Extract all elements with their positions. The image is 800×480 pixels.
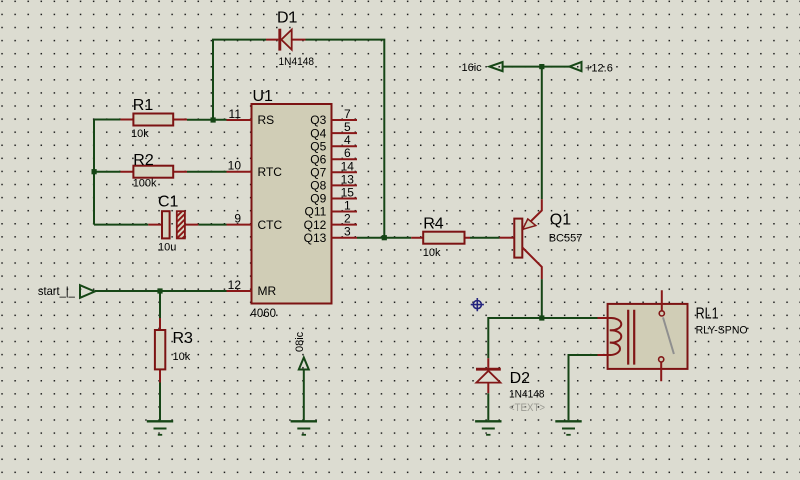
svg-text:RLY-SPNO: RLY-SPNO <box>696 325 748 337</box>
svg-text:1N4148: 1N4148 <box>279 56 315 68</box>
wire: 08ic arrow to ground <box>303 370 305 421</box>
ground below 08ic <box>291 421 317 435</box>
svg-text:10: 10 <box>228 159 242 173</box>
svg-text:4: 4 <box>344 133 351 147</box>
svg-text:12: 12 <box>228 278 242 292</box>
svg-text:Q4: Q4 <box>310 126 326 140</box>
svg-text:10k: 10k <box>173 351 191 363</box>
svg-text:10u: 10u <box>158 242 176 254</box>
U1 pin 3 Q13 <box>304 225 357 245</box>
node: junction Q13/D1 <box>382 235 387 240</box>
svg-text:14: 14 <box>341 159 355 173</box>
svg-text:RS: RS <box>258 113 275 127</box>
U1 pin 13 Q8 <box>310 172 357 192</box>
power terminal +12.6 <box>570 62 613 75</box>
wire: R4 to Q1 base <box>470 237 500 239</box>
marker: origin crosshair <box>471 298 484 311</box>
wire: Q13 to R4 <box>357 237 411 239</box>
U1 pin 12 MR <box>227 278 277 298</box>
node: junction power rail <box>539 64 544 69</box>
node: junction collector/D2/relay <box>539 315 544 320</box>
svg-text:Q1: Q1 <box>550 211 571 228</box>
svg-text:100k: 100k <box>133 178 157 190</box>
U1 pin 11 RS <box>227 107 275 127</box>
svg-text:Q13: Q13 <box>304 231 327 245</box>
svg-text:10k: 10k <box>423 247 441 259</box>
svg-text:2: 2 <box>344 212 351 226</box>
wire: C1 row to U1 pin 9 <box>94 224 227 226</box>
svg-text:R1: R1 <box>133 97 154 114</box>
wire: R2 row to U1 pin 10 <box>94 171 227 173</box>
ground below relay <box>555 421 581 435</box>
svg-text:U1: U1 <box>253 88 274 105</box>
svg-text:7: 7 <box>344 107 351 121</box>
wire: relay coil bottom to ground <box>569 355 598 420</box>
svg-text:3: 3 <box>344 225 351 239</box>
svg-text:Q9: Q9 <box>310 192 326 206</box>
relay RL1 <box>598 290 749 381</box>
input terminal start <box>38 284 95 298</box>
node: junction start/R3 <box>157 288 162 293</box>
wire: left vertical bus R1/R2/C1 <box>93 120 95 225</box>
svg-text:Q11: Q11 <box>305 205 327 219</box>
wire: D2 down to ground <box>487 393 489 420</box>
svg-text:16ic: 16ic <box>462 62 483 74</box>
svg-text:11: 11 <box>229 107 242 121</box>
wire: power rail down to Q1 emitter <box>541 67 543 200</box>
wire: D1 right down to Q13 row <box>306 40 385 238</box>
wire: Q1 collector down <box>541 279 543 318</box>
svg-text:08ic: 08ic <box>294 331 306 352</box>
resistor R4 <box>411 216 470 260</box>
svg-text:C1: C1 <box>158 194 179 211</box>
U1 pin 1 Q11 <box>305 199 357 219</box>
svg-text:+12.6: +12.6 <box>585 63 613 75</box>
svg-text:Q6: Q6 <box>310 152 326 166</box>
svg-text:Q5: Q5 <box>310 139 326 153</box>
transistor Q1 BC557 <box>500 199 583 279</box>
wire: vertical up to D1 <box>213 40 266 120</box>
svg-text:MR: MR <box>258 284 277 298</box>
diode D1 <box>266 10 314 69</box>
svg-text:10k: 10k <box>131 128 149 140</box>
svg-text:BC557: BC557 <box>549 233 583 245</box>
power terminal 08ic with arrow <box>294 331 309 369</box>
wire: R1 row to U1 pin 11 <box>94 119 227 121</box>
svg-text:CTC: CTC <box>258 218 283 232</box>
svg-text:6: 6 <box>344 146 351 160</box>
ground below R3 <box>147 421 173 435</box>
svg-text:13: 13 <box>341 172 355 186</box>
wire: power rail <box>503 66 570 68</box>
wire: R3 down to ground <box>159 383 161 421</box>
svg-text:4060: 4060 <box>251 306 277 320</box>
node: junction RS/D1 branch <box>211 117 216 122</box>
svg-text:<TEXT>: <TEXT> <box>509 402 545 414</box>
svg-text:1N4148: 1N4148 <box>509 389 545 401</box>
diode D2 <box>476 358 545 414</box>
svg-text:9: 9 <box>234 212 241 226</box>
svg-text:D2: D2 <box>510 370 531 387</box>
wire: D2 to relay coil row <box>488 318 597 358</box>
U1 pin 7 Q3 <box>310 107 357 127</box>
U1 pin 6 Q6 <box>310 146 357 166</box>
svg-text:15: 15 <box>341 186 355 200</box>
wire: start to MR <box>95 290 227 292</box>
svg-text:Q8: Q8 <box>310 179 326 193</box>
svg-text:R4: R4 <box>423 216 444 233</box>
svg-text:Q3: Q3 <box>310 113 326 127</box>
U1 pin 9 CTC <box>227 212 283 232</box>
svg-text:R2: R2 <box>133 152 154 169</box>
svg-text:D1: D1 <box>277 10 298 27</box>
ground below D2 <box>475 421 501 435</box>
svg-text:Q12: Q12 <box>304 218 327 232</box>
resistor R3 <box>155 291 193 383</box>
svg-text:RL1: RL1 <box>696 306 719 323</box>
node: junction at R2 left <box>92 169 97 174</box>
U1 pin 4 Q5 <box>310 133 357 153</box>
capacitor C1 <box>148 194 198 254</box>
svg-text:1: 1 <box>344 199 351 213</box>
IC U1 4060 <box>251 88 332 320</box>
resistor R1 <box>120 97 187 140</box>
svg-text:RTC: RTC <box>258 165 283 179</box>
svg-text:R3: R3 <box>173 330 194 347</box>
U1 pin 10 RTC <box>227 159 283 179</box>
U1 pin 15 Q9 <box>310 186 357 206</box>
U1 pin 5 Q4 <box>310 120 357 140</box>
svg-text:5: 5 <box>344 120 351 134</box>
resistor R2 <box>120 152 187 190</box>
U1 pin 2 Q12 <box>304 212 357 232</box>
svg-text:Q7: Q7 <box>310 166 326 180</box>
U1 pin 14 Q7 <box>310 159 357 179</box>
power terminal 16ic <box>462 62 503 74</box>
svg-text:start_|_: start_|_ <box>38 284 75 298</box>
